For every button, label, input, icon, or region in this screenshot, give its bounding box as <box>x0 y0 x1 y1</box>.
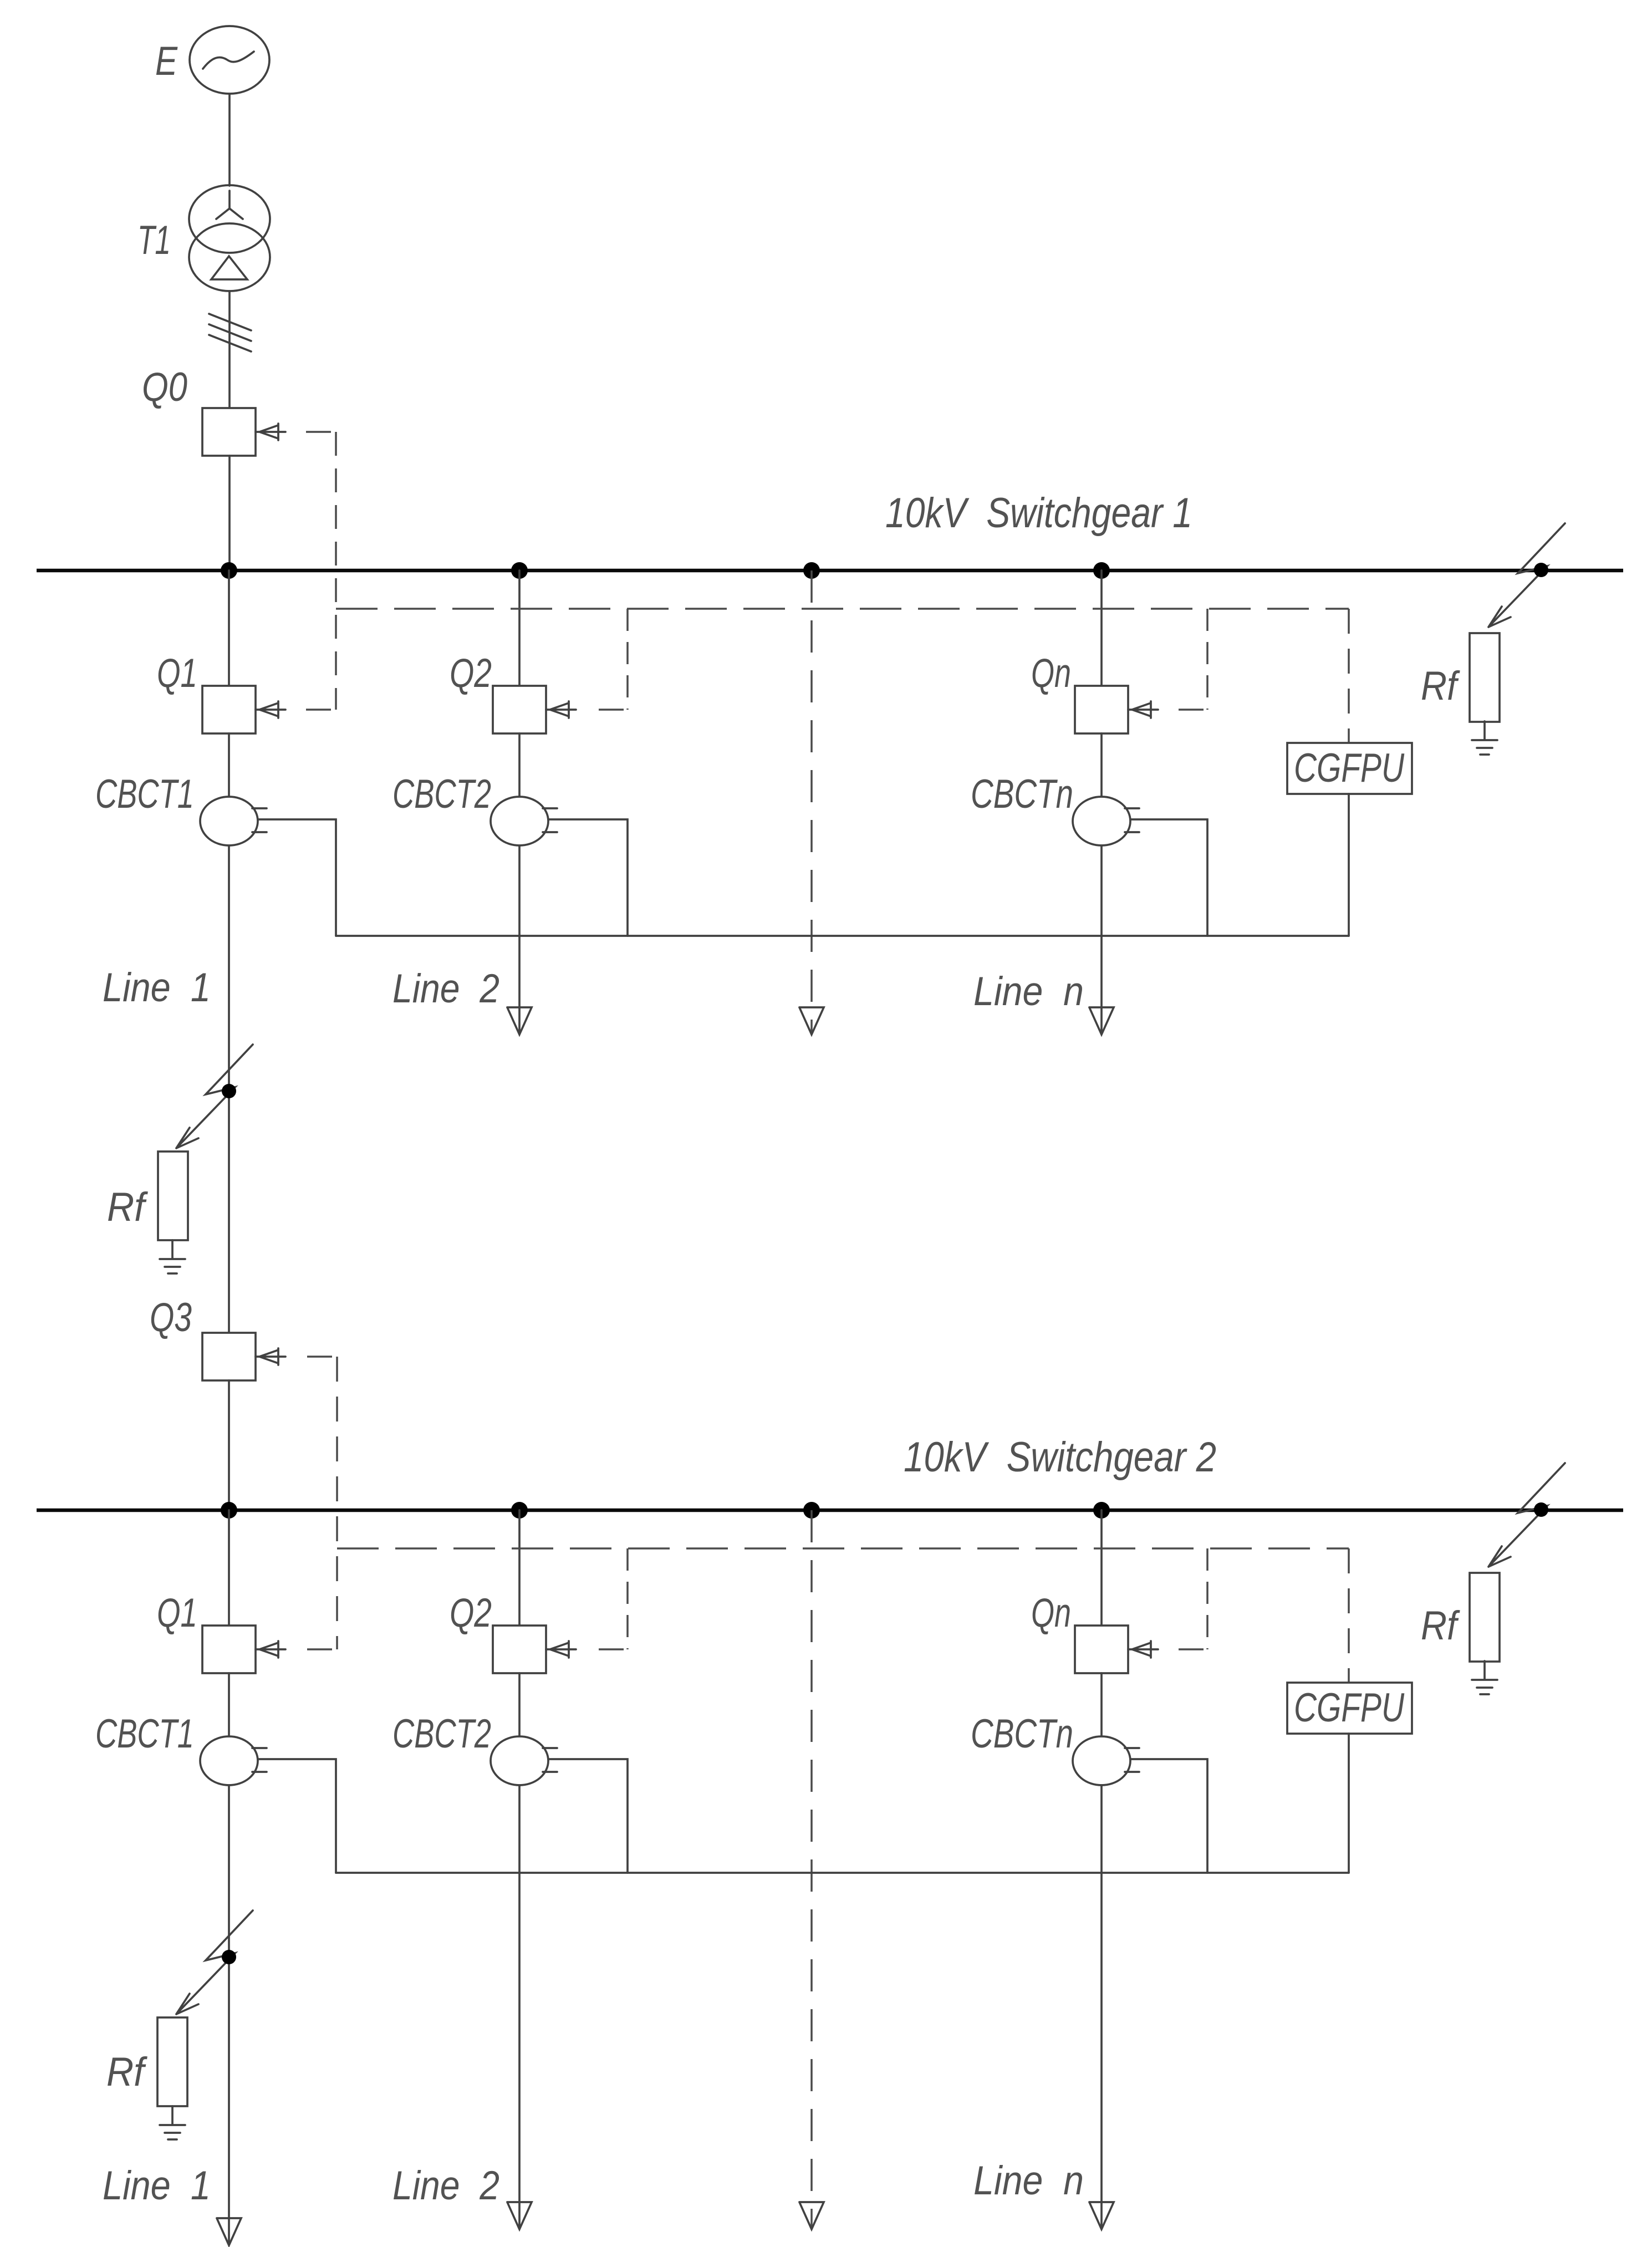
wire E to T1 <box>228 94 231 186</box>
dashed trip link Q3 stub <box>307 1356 337 1358</box>
svg-text:CGFPU: CGFPU <box>1294 1685 1405 1730</box>
core-balance CT CBCT1 <box>200 797 258 845</box>
wire CBCT1 secondary tap to pickup bus <box>258 819 336 936</box>
svg-text:Line 2: Line 2 <box>392 966 499 1011</box>
ground Rf Line 1 switchgear 2 <box>160 2106 185 2139</box>
svg-text:CBCTn: CBCTn <box>971 1711 1073 1756</box>
node busbar1 / omitted feeder junction <box>803 562 820 579</box>
earth-fault bolt on Line 1 <box>176 1044 253 1148</box>
fault resistor Rf Line 1 switchgear 2 <box>157 2017 187 2106</box>
CGFPU unit switchgear 1 <box>1287 743 1412 794</box>
dashed trip link Qn stub switchgear 2 <box>1179 1648 1207 1650</box>
dashed trip link Q2 vertical switchgear 2 <box>626 1548 629 1649</box>
node busbar1 / feeder 2 junction <box>511 562 528 579</box>
fault resistor Rf Line 1 <box>158 1151 188 1240</box>
svg-text:Qn: Qn <box>1031 651 1071 696</box>
circuit breaker Qn' <box>1075 1626 1128 1673</box>
Q2 operating-mechanism arrow <box>546 701 576 718</box>
wire Line 2 outgoing switchgear 2 <box>518 1785 521 2227</box>
dashed trip link Q2 stub switchgear 2 <box>599 1648 628 1650</box>
wire Line 1 outgoing switchgear 2 <box>228 1785 230 2243</box>
svg-text:Line 1: Line 1 <box>103 965 211 1010</box>
svg-text:CGFPU: CGFPU <box>1294 746 1405 791</box>
Q2' operating-mechanism arrow <box>546 1641 576 1658</box>
Q3 operating-mechanism arrow <box>256 1348 285 1365</box>
Qn operating-mechanism arrow <box>1128 701 1158 718</box>
dashed link trip bus to CGFPU 2 <box>1348 1548 1350 1683</box>
circuit breaker Q1 <box>202 686 256 733</box>
earth-fault bolt at busbar 1 <box>1488 523 1565 627</box>
dashed trip bus switchgear 2 <box>337 1547 1349 1550</box>
wire Line 2 outgoing <box>518 845 521 1032</box>
earth-fault bolt on Line 1 switchgear 2 <box>176 1910 253 2014</box>
ground Rf busbar 2 <box>1472 1661 1497 1694</box>
wire Line n outgoing <box>1100 845 1103 1032</box>
Qn' operating-mechanism arrow <box>1128 1641 1158 1658</box>
wire Qn to CBCTn switchgear 2 <box>1100 1673 1103 1736</box>
wire CGFPU 1 to pickup bus <box>1348 794 1350 936</box>
wire Q3 to busbar 2 <box>228 1380 230 1510</box>
CBCTn' secondary terminal ticks <box>1125 1748 1139 1772</box>
svg-text:Q1: Q1 <box>157 651 197 696</box>
earth-fault bolt at busbar 2 <box>1488 1463 1565 1567</box>
wire Q0 to busbar 1 <box>228 456 231 570</box>
svg-text:Line n: Line n <box>973 2158 1084 2203</box>
node fault point Line 1 <box>222 1084 236 1098</box>
circuit breaker Q2 <box>493 686 546 733</box>
svg-text:CBCT2: CBCT2 <box>392 772 491 817</box>
node fault point busbar 2 <box>1534 1502 1548 1517</box>
wire Q2 to CBCT2 switchgear 2 <box>518 1673 521 1736</box>
omitted feeder outgoing arrow switchgear 1 <box>799 1007 824 1035</box>
node busbar2 / feeder n junction <box>1093 1502 1110 1519</box>
transformer T1 primary winding <box>189 185 270 253</box>
Line 2 outgoing arrow switchgear 2 <box>507 2202 532 2229</box>
wire Line n outgoing switchgear 2 <box>1100 1785 1103 2227</box>
dashed trip link Qn stub <box>1179 709 1207 711</box>
dashed trip link Q2 stub <box>599 709 628 711</box>
wire Qn to CBCTn <box>1100 733 1103 797</box>
circuit breaker Q3 <box>202 1333 256 1380</box>
fault resistor Rf busbar 2 <box>1470 1573 1500 1662</box>
ground Rf busbar 1 <box>1472 721 1497 755</box>
dashed omitted feeder switchgear 1 <box>810 570 813 1032</box>
svg-text:E: E <box>155 39 178 84</box>
Q1' operating-mechanism arrow <box>256 1641 285 1658</box>
CBCT1' secondary terminal ticks <box>252 1748 267 1772</box>
fault resistor Rf busbar 1 <box>1470 633 1500 722</box>
circuit breaker Q2' <box>493 1626 546 1673</box>
dashed trip link Q2 vertical <box>626 609 629 710</box>
node busbar2 / feeder 1 junction <box>221 1502 237 1519</box>
wire CGFPU 2 to pickup bus <box>1348 1734 1350 1873</box>
omitted feeder outgoing arrow switchgear 2 <box>799 2202 824 2229</box>
wire Q1 to CBCT1 switchgear 2 <box>228 1673 230 1736</box>
CBCT1 secondary terminal ticks <box>252 808 267 832</box>
CBCT pickup bus switchgear 2 <box>336 1872 1349 1874</box>
wire busbar1 to Q2 <box>518 570 521 686</box>
wire T1 to Q0 <box>228 291 231 408</box>
busbar 10kV switchgear 2 <box>37 1509 1623 1512</box>
omitted-section slashes <box>209 314 251 351</box>
svg-text:T1: T1 <box>137 218 171 263</box>
wire CBCT2' secondary tap to pickup bus <box>548 1759 628 1873</box>
dashed trip link switchgear 2 Q1 stub <box>307 1648 337 1650</box>
wire CBCTn secondary tap to pickup bus <box>1130 819 1207 936</box>
svg-text:Line n: Line n <box>973 969 1084 1014</box>
wire busbar2 to Q2 switchgear 2 <box>518 1510 521 1626</box>
dashed trip link Q3 vertical <box>336 1357 338 1649</box>
circuit breaker Q0 <box>202 408 256 456</box>
core-balance CT CBCT1' <box>200 1736 258 1785</box>
svg-text:10kV Switchgear 2: 10kV Switchgear 2 <box>904 1434 1216 1481</box>
wire CBCTn' secondary tap to pickup bus <box>1130 1759 1207 1873</box>
wire Q1 to CBCT1 <box>228 733 230 797</box>
Line n outgoing arrow switchgear 2 <box>1089 2202 1114 2229</box>
svg-text:Rf: Rf <box>1421 1603 1460 1648</box>
Line 2 outgoing arrow <box>507 1007 532 1035</box>
dashed trip bus switchgear 1 <box>336 608 1349 610</box>
svg-text:CBCTn: CBCTn <box>971 772 1073 817</box>
dashed trip link Q1 stub <box>306 709 336 711</box>
Line n outgoing arrow <box>1089 1007 1114 1035</box>
source E symbol <box>190 26 269 94</box>
wire Q2 to CBCT2 <box>518 733 521 797</box>
wire busbar2 to Q1 switchgear 2 <box>228 1510 230 1626</box>
node busbar2 / feeder 2 junction <box>511 1502 528 1519</box>
wire busbar2 to Qn switchgear 2 <box>1100 1510 1103 1626</box>
svg-text:CBCT1: CBCT1 <box>95 772 194 817</box>
CBCTn secondary terminal ticks <box>1125 808 1139 832</box>
svg-text:Q2: Q2 <box>450 1591 492 1635</box>
circuit breaker Q1' <box>202 1626 256 1673</box>
node fault point Line 1 switchgear 2 <box>222 1950 236 1964</box>
wire Line 1 CBCT1 to Q3 <box>228 845 230 1333</box>
svg-text:Q0: Q0 <box>142 365 187 410</box>
core-balance CT CBCTn <box>1073 797 1130 845</box>
wire CBCT1' secondary tap to pickup bus <box>258 1759 336 1873</box>
circuit breaker Qn <box>1075 686 1128 733</box>
dashed omitted feeder switchgear 2 <box>810 1510 813 2227</box>
svg-text:CBCT1: CBCT1 <box>95 1711 194 1756</box>
transformer T1 wye symbol <box>216 191 243 219</box>
svg-text:Rf: Rf <box>107 1185 148 1230</box>
dashed trip link Qn vertical <box>1206 609 1209 710</box>
CBCT2 secondary terminal ticks <box>543 808 557 832</box>
source E sine wave <box>203 52 254 69</box>
svg-text:Q3: Q3 <box>150 1295 192 1340</box>
svg-text:Rf: Rf <box>106 2050 147 2095</box>
busbar 10kV switchgear 1 <box>37 569 1623 573</box>
Q1 operating-mechanism arrow <box>256 701 285 718</box>
svg-text:Q1: Q1 <box>157 1591 197 1635</box>
dashed trip link Qn vertical switchgear 2 <box>1206 1548 1209 1649</box>
core-balance CT CBCTn' <box>1073 1736 1130 1785</box>
svg-text:CBCT2: CBCT2 <box>392 1711 491 1756</box>
svg-text:Rf: Rf <box>1421 664 1460 709</box>
wire CBCT2 secondary tap to pickup bus <box>548 819 628 936</box>
ground Rf Line 1 <box>160 1240 185 1273</box>
core-balance CT CBCT2' <box>491 1736 548 1785</box>
node busbar1 / feeder n junction <box>1093 562 1110 579</box>
Q0 operating-mechanism arrow <box>256 424 285 440</box>
svg-text:Line 2: Line 2 <box>392 2163 499 2208</box>
transformer T1 secondary winding <box>189 223 270 291</box>
wire busbar1 to Qn <box>1100 570 1103 686</box>
svg-text:Q2: Q2 <box>450 651 492 696</box>
core-balance CT CBCT2 <box>491 797 548 845</box>
CBCT pickup bus switchgear 1 <box>336 935 1349 937</box>
dashed link trip bus to CGFPU 1 <box>1348 609 1350 743</box>
wire busbar1 to Q1 <box>228 570 230 686</box>
dashed trip link Q0 to Q1 vertical <box>335 432 337 710</box>
svg-text:Line 1: Line 1 <box>103 2163 211 2208</box>
Line 1 outgoing arrow switchgear 2 <box>217 2218 241 2245</box>
CGFPU unit switchgear 2 <box>1287 1683 1412 1734</box>
svg-text:10kV Switchgear 1: 10kV Switchgear 1 <box>885 490 1192 537</box>
node busbar1 / feeder 1 junction <box>221 562 237 579</box>
node fault point busbar 1 <box>1534 563 1548 577</box>
dashed trip link Q0 stub <box>306 431 336 433</box>
svg-text:Qn: Qn <box>1031 1591 1071 1635</box>
node busbar2 / omitted feeder junction <box>803 1502 820 1519</box>
transformer T1 delta symbol <box>211 256 247 279</box>
CBCT2' secondary terminal ticks <box>543 1748 557 1772</box>
